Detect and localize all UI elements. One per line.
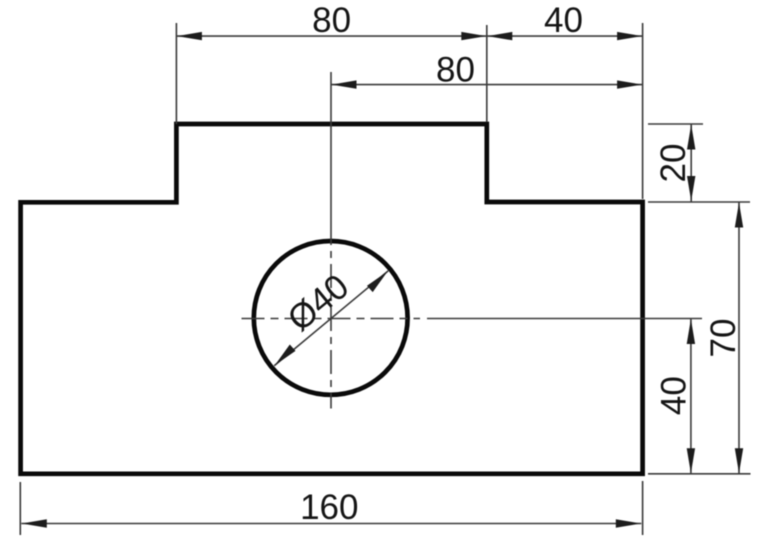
extension line x=331 for second 80 dim xyxy=(330,72,332,221)
svg-text:80: 80 xyxy=(312,1,351,40)
svg-text:40: 40 xyxy=(655,376,694,415)
dimension 80 (second row) line xyxy=(331,80,643,88)
svg-text:40: 40 xyxy=(544,1,583,40)
svg-text:80: 80 xyxy=(436,51,475,90)
svg-text:160: 160 xyxy=(300,488,358,527)
extension line x=176 top-left xyxy=(175,23,177,124)
part outline (stepped plate) xyxy=(21,124,643,474)
dimension 40 (right, vertical) line xyxy=(687,319,695,474)
diameter dimension line Ø40 (diagonal) xyxy=(274,271,388,366)
vertical center line of circle xyxy=(330,221,332,409)
extension line y=124 right of step xyxy=(648,123,703,125)
extension line y=474 bottom-right xyxy=(648,473,751,475)
extension line y=318 right (hole center) xyxy=(427,318,702,320)
dimension 80 (top left) line xyxy=(176,32,486,40)
svg-text:70: 70 xyxy=(704,319,743,358)
extension line x=643 bottom-right xyxy=(642,481,644,535)
dimension 20 (right, vertical) line xyxy=(687,124,695,202)
dimension 40 (top right) line xyxy=(487,32,643,40)
extension line x=643 top-right xyxy=(642,23,644,199)
svg-text:20: 20 xyxy=(654,144,693,183)
dimension 70 (far right, vertical) line xyxy=(735,202,743,474)
extension line x=487 top-middle xyxy=(486,25,488,122)
extension line y=202 right of body top xyxy=(648,201,750,203)
extension line x=20 bottom-left xyxy=(19,482,21,535)
dimension 160 (bottom) line xyxy=(21,519,641,527)
horizontal center line of circle xyxy=(242,318,421,320)
hole circle Ø40 xyxy=(254,241,408,395)
